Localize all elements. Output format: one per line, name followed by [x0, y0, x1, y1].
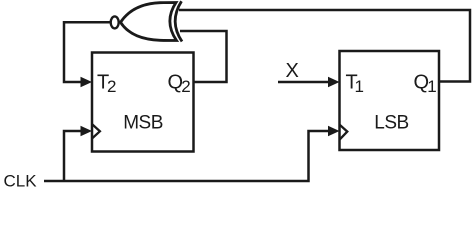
arrowhead at LSB clock input [328, 126, 340, 136]
arrowhead at MSB clock input [81, 126, 93, 136]
flip-flop LSB box [340, 51, 440, 150]
svg-text:1: 1 [427, 77, 436, 96]
arrowhead at T1 input [328, 77, 340, 87]
svg-text:MSB: MSB [123, 112, 163, 133]
MSB clock triangle pin [92, 124, 100, 138]
flip-flop MSB box [92, 53, 194, 152]
XNOR gate U1 extra input arc [175, 1, 182, 41]
wire: CLK trunk to LSB clock [44, 131, 331, 181]
wire: X input [278, 81, 331, 84]
svg-text:LSB: LSB [374, 112, 408, 133]
XNOR gate U1 body [121, 3, 177, 41]
XNOR gate U1 output bubble [111, 16, 119, 28]
wire: CLK branch to MSB clock [64, 131, 84, 181]
arrowhead at T2 input [81, 77, 93, 87]
wire: Q1 feedback to gate upper input [179, 10, 470, 82]
svg-text:CLK: CLK [4, 172, 38, 191]
svg-text:X: X [286, 60, 299, 82]
svg-text:2: 2 [181, 77, 190, 96]
svg-text:1: 1 [355, 77, 364, 96]
wire: gate output to T2 input [64, 22, 111, 82]
wire: Q2 output to gate lower input [180, 31, 227, 82]
svg-text:2: 2 [107, 77, 116, 96]
LSB clock triangle pin [340, 125, 348, 140]
